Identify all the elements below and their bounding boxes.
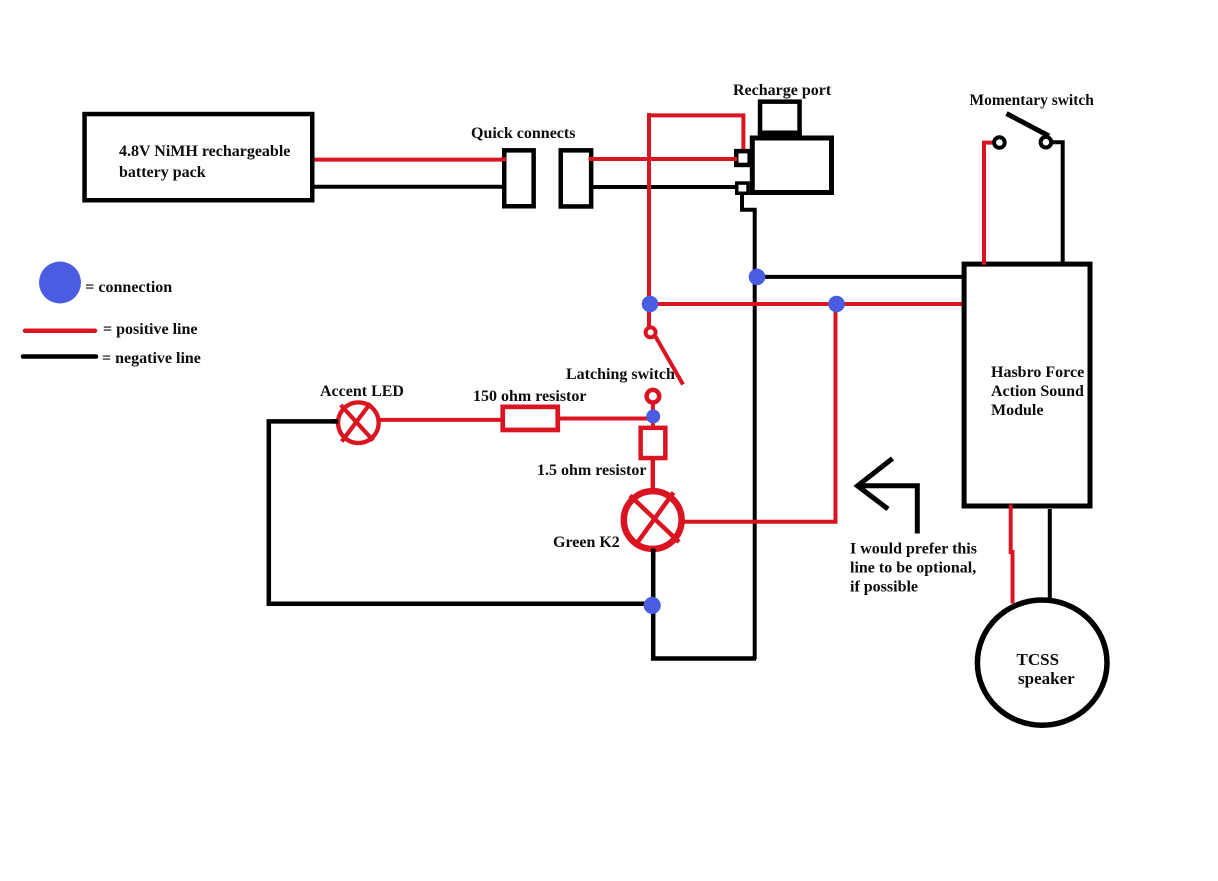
svg-text:Quick connects: Quick connects bbox=[471, 125, 575, 142]
wire positive stub out of QC2 bbox=[589, 157, 595, 161]
node switch junction bbox=[646, 410, 660, 424]
wire negative K2 stub over ring bbox=[651, 549, 656, 561]
recharge port P1 body bbox=[752, 138, 831, 193]
momentary switch wire positive bbox=[984, 143, 993, 263]
svg-text:Latching switch: Latching switch bbox=[566, 366, 675, 383]
wire negative battery to quick connect bbox=[312, 185, 506, 189]
wire positive battery to quick connect bbox=[312, 158, 506, 162]
wire positive quick connect to recharge port bbox=[590, 157, 736, 161]
wire negative to sound module bbox=[755, 275, 964, 279]
wire positive recharge-port top loop bbox=[649, 115, 743, 151]
svg-text:Recharge port: Recharge port bbox=[733, 82, 832, 99]
wire positive LED to resistor bbox=[379, 418, 503, 422]
latching switch wire to node bbox=[651, 402, 655, 428]
svg-text:= positive line: = positive line bbox=[103, 321, 197, 338]
svg-text:Accent LED: Accent LED bbox=[320, 383, 404, 400]
svg-text:battery pack: battery pack bbox=[119, 164, 206, 181]
wire positive module to speaker bbox=[1011, 505, 1013, 604]
recharge port pin 1 bbox=[736, 151, 749, 165]
svg-text:= connection: = connection bbox=[85, 279, 172, 296]
svg-text:speaker: speaker bbox=[1018, 669, 1075, 688]
wire positive resistor to K2 bbox=[651, 458, 656, 492]
svg-text:4.8V NiMH rechargeable: 4.8V NiMH rechargeable bbox=[119, 143, 290, 160]
svg-text:Momentary switch: Momentary switch bbox=[970, 92, 1095, 109]
latching switch terminal top bbox=[646, 327, 656, 337]
wire positive to sound module bbox=[650, 302, 964, 306]
quick connect J2 bbox=[561, 150, 591, 206]
svg-text:= negative line: = negative line bbox=[102, 350, 201, 367]
resistor R1 150 ohm bbox=[503, 407, 558, 430]
wire positive main vertical bbox=[647, 113, 651, 328]
accent LED D1 bbox=[338, 402, 379, 443]
wire positive resistor to node bbox=[558, 417, 652, 421]
wire negative below recharge port bbox=[742, 193, 755, 659]
sound module U1 bbox=[964, 264, 1090, 506]
node negative junction bbox=[749, 269, 766, 286]
wire positive stub into module top bbox=[982, 259, 986, 265]
momentary switch S2 lever bbox=[1007, 114, 1050, 137]
svg-text:line to be optional,: line to be optional, bbox=[850, 560, 976, 577]
svg-text:Module: Module bbox=[991, 402, 1043, 419]
node negative bottom junction bbox=[644, 597, 661, 614]
latching switch terminal bottom bbox=[647, 390, 660, 403]
wire negative quick connect to recharge port bbox=[590, 185, 736, 189]
speaker SP1 bbox=[977, 600, 1107, 725]
node positive junction left bbox=[642, 296, 659, 313]
latching switch S1 lever bbox=[656, 337, 684, 385]
recharge port pin 2 bbox=[737, 183, 748, 193]
annotation arrow bbox=[858, 459, 893, 510]
resistor R2 1.5 ohm bbox=[641, 428, 666, 458]
svg-text:I would prefer this: I would prefer this bbox=[850, 541, 977, 558]
wire negative module to speaker bbox=[1048, 509, 1052, 599]
node positive junction right bbox=[828, 296, 845, 313]
wire positive stub over QC1 border bbox=[501, 157, 506, 161]
LED K2 green bbox=[624, 491, 682, 549]
svg-text:TCSS: TCSS bbox=[1017, 650, 1060, 669]
recharge port junction band bbox=[758, 131, 802, 139]
legend positive line sample bbox=[25, 329, 95, 334]
momentary switch terminal right bbox=[1041, 137, 1052, 148]
quick connect J1 bbox=[504, 150, 533, 206]
recharge port P1 top block bbox=[760, 102, 800, 137]
wire positive stub into pin 1 bbox=[731, 157, 737, 161]
momentary switch terminal left bbox=[994, 137, 1005, 148]
wire positive K2 branch bbox=[684, 304, 836, 522]
legend node symbol bbox=[39, 262, 81, 304]
battery pack B1 bbox=[85, 114, 313, 200]
legend negative line sample bbox=[23, 354, 96, 359]
momentary switch wire negative bbox=[1053, 142, 1063, 263]
svg-text:1.5 ohm resistor: 1.5 ohm resistor bbox=[537, 462, 646, 479]
wire negative stub into pin 2 bbox=[731, 185, 737, 189]
wire negative stub onto LED ring bbox=[332, 419, 338, 424]
svg-text:if possible: if possible bbox=[850, 579, 918, 596]
svg-text:150 ohm resistor: 150 ohm resistor bbox=[473, 388, 586, 405]
svg-text:Hasbro Force: Hasbro Force bbox=[991, 364, 1084, 381]
svg-text:Action Sound: Action Sound bbox=[991, 383, 1084, 400]
wire negative accent LED loop bbox=[269, 421, 652, 603]
wire negative K2 bottom loop bbox=[653, 548, 756, 659]
svg-text:Green K2: Green K2 bbox=[553, 534, 620, 551]
